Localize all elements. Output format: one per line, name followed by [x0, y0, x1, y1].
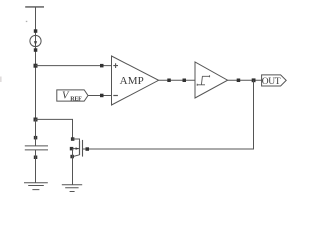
power rail VDD bar: [25, 6, 44, 8]
scan speck near rail: [26, 21, 28, 22]
transistor M1 drain pin node: [71, 137, 75, 141]
svg-text:AMP: AMP: [120, 75, 144, 87]
transistor M1 channel bar: [79, 141, 81, 155]
pin node below current source: [34, 48, 38, 52]
pin node at + input: [100, 64, 104, 68]
current source I1 circle: [30, 35, 41, 46]
svg-text:OUT: OUT: [262, 77, 281, 87]
transistor M1 body stub with arrow: [72, 148, 80, 150]
op-amp U1 AMP triangle: [112, 56, 159, 105]
schmitt trigger U2 triangle: [195, 62, 228, 98]
reference flag VREF outline: [57, 90, 88, 101]
transistor M1 source stub: [73, 155, 80, 157]
pin node at schmitt output: [237, 79, 241, 83]
pin node above current source: [34, 29, 38, 33]
wire: node C to transistor drain: [36, 119, 73, 139]
ground GND1 (under capacitor): [24, 183, 48, 190]
transistor M1 gate pin node: [86, 147, 90, 151]
transistor M1 drain stub: [73, 139, 80, 141]
wire: body to source to ground: [72, 149, 74, 185]
port OUT flag outline: [262, 75, 287, 86]
pin node at schmitt input: [183, 79, 187, 83]
op-amp + input mark: [113, 63, 118, 68]
transistor M1 gate bar: [82, 140, 84, 157]
capacitor C1 bottom pin node: [34, 156, 38, 160]
op-amp - input mark: [113, 95, 118, 97]
pin node on amp output wire: [167, 79, 171, 83]
capacitor C1 top plate: [25, 145, 48, 147]
wire: VDD bar down through current source to lower junction: [35, 7, 37, 120]
current source I1 arrowhead (pointing down): [34, 41, 37, 45]
ground GND2 (under transistor source): [62, 185, 82, 192]
wire: node A to op-amp + input: [36, 65, 112, 67]
wire: schmitt output to OUT port: [228, 79, 262, 81]
svg-text:REF: REF: [70, 97, 82, 103]
transistor M1 source pin node: [70, 155, 74, 159]
wire: cap node gap lines: [35, 119, 37, 151]
junction node C (cap / drain tee): [34, 118, 38, 122]
junction node A (to + input): [34, 64, 38, 68]
junction node B (feedback tap): [252, 78, 256, 82]
schmitt hysteresis glyph: [197, 75, 209, 85]
scan smudge at left edge: [0, 77, 2, 83]
wire: feedback from node B down to gate line: [87, 80, 253, 149]
transistor M1 gate stub: [83, 148, 88, 150]
wire: VREF flag to op-amp - input: [88, 95, 112, 97]
wire: cap bottom to ground: [35, 151, 37, 183]
wire: op-amp output to schmitt trigger input: [159, 79, 195, 81]
transistor M1 body pin node: [70, 147, 74, 151]
capacitor C1 top pin node: [34, 136, 38, 140]
pin node at - input: [100, 94, 104, 98]
capacitor C1 bottom plate: [25, 149, 48, 151]
svg-text:V: V: [62, 91, 70, 102]
